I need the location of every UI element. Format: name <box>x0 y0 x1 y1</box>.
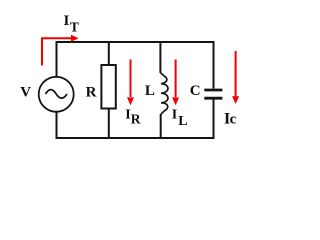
wire inductor branch top segment <box>159 41 161 73</box>
resistor R body <box>101 65 115 109</box>
current arrow IL (red, down) <box>175 60 177 98</box>
wire bottom rail <box>57 137 214 139</box>
wire resistor branch top segment <box>108 41 110 66</box>
wire left branch top segment <box>56 41 58 77</box>
svg-text:R: R <box>86 84 97 100</box>
svg-text:T: T <box>70 19 79 34</box>
wire capacitor branch bottom segment <box>213 100 215 140</box>
svg-text:I: I <box>64 13 70 29</box>
AC source sine wave <box>46 90 68 99</box>
capacitor C top plate <box>204 89 222 92</box>
AC source V circle <box>39 77 74 112</box>
svg-text:V: V <box>20 84 31 100</box>
current arrow IR (red, down) <box>130 60 132 98</box>
svg-text:c: c <box>230 112 237 128</box>
inductor L coil <box>160 73 168 115</box>
wire top rail <box>57 41 214 43</box>
current arrow IC (red, down) <box>235 51 237 96</box>
svg-text:R: R <box>131 112 141 127</box>
current arrow IT (L-shaped, red) <box>42 38 71 65</box>
svg-text:I: I <box>172 108 177 123</box>
wire capacitor branch top segment <box>213 41 215 89</box>
wire left branch bottom segment <box>56 112 58 139</box>
wire inductor branch bottom segment <box>160 114 162 139</box>
svg-text:C: C <box>190 83 201 99</box>
svg-text:L: L <box>145 83 155 99</box>
svg-text:L: L <box>178 114 187 129</box>
wire resistor branch bottom segment <box>108 109 110 140</box>
capacitor C bottom plate <box>204 97 222 100</box>
